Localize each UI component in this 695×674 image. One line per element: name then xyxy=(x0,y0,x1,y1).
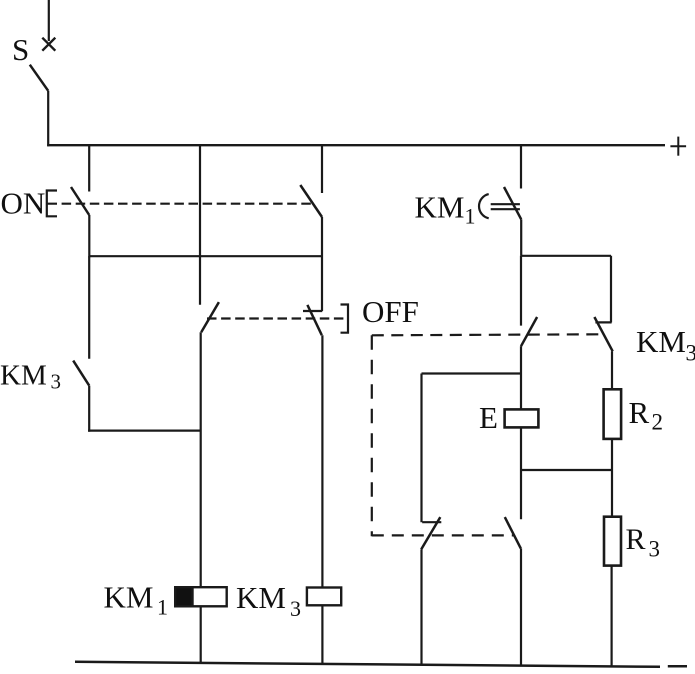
svg-text:E: E xyxy=(479,400,498,435)
svg-text:KM: KM xyxy=(636,324,686,359)
svg-text:OFF: OFF xyxy=(362,294,419,329)
svg-text:3: 3 xyxy=(686,341,695,366)
svg-text:KM: KM xyxy=(236,580,286,615)
svg-text:3: 3 xyxy=(51,370,62,394)
svg-text:R: R xyxy=(629,395,650,430)
svg-text:KM: KM xyxy=(415,190,465,225)
svg-text:3: 3 xyxy=(649,537,661,562)
svg-text:1: 1 xyxy=(157,595,168,620)
svg-text:R: R xyxy=(626,523,646,556)
svg-text:S: S xyxy=(12,32,29,67)
svg-text:2: 2 xyxy=(652,410,664,435)
svg-text:3: 3 xyxy=(290,596,301,621)
svg-text:ON: ON xyxy=(1,185,46,220)
svg-text:KM: KM xyxy=(104,579,154,614)
svg-text:1: 1 xyxy=(465,203,476,228)
svg-text:KM: KM xyxy=(0,359,47,391)
